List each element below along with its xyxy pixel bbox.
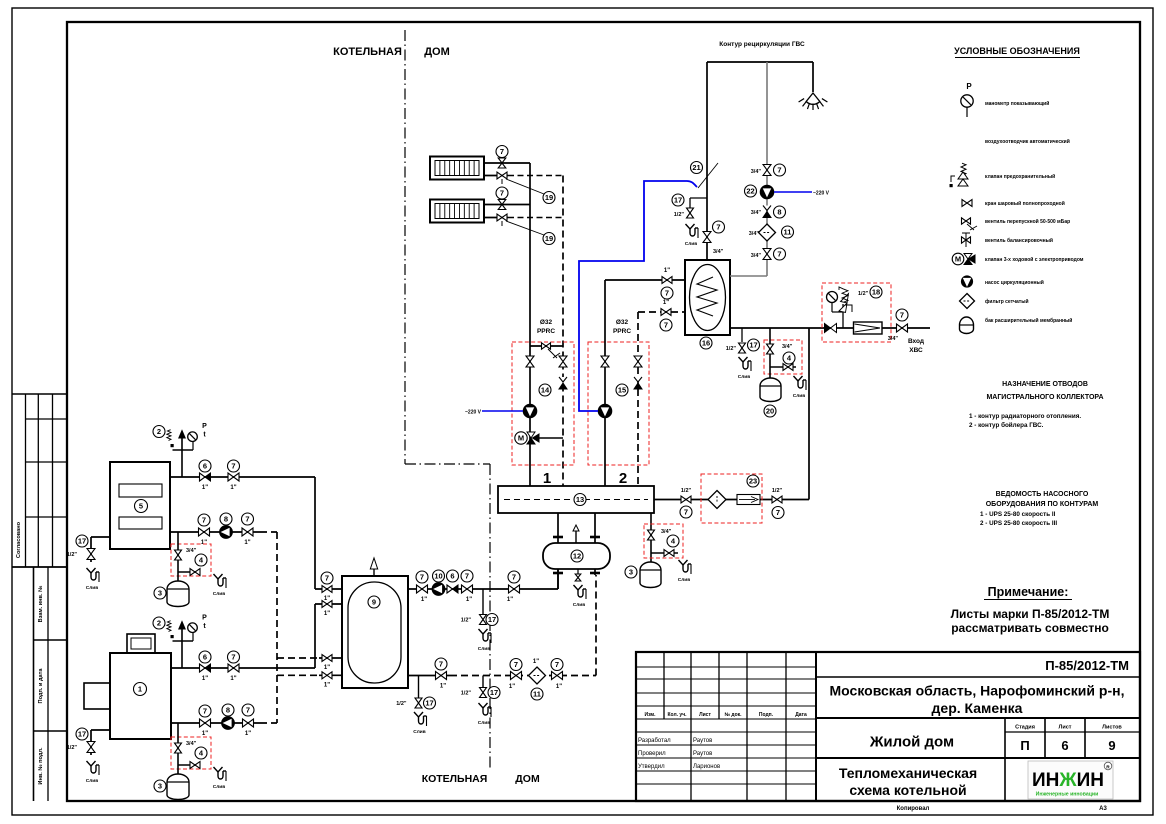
svg-text:КОТЕЛЬНАЯ: КОТЕЛЬНАЯ (422, 773, 488, 785)
note circuit 1 (969, 413, 1081, 420)
legend filter (960, 294, 1029, 309)
svg-text:1": 1" (245, 731, 251, 737)
flow cartridge 23 (737, 495, 760, 505)
legend expansion tank (960, 317, 1073, 334)
svg-text:ОБОРУДОВАНИЯ ПО КОНТУРАМ: ОБОРУДОВАНИЯ ПО КОНТУРАМ (986, 501, 1099, 508)
svg-text:3/4": 3/4" (186, 548, 197, 554)
svg-text:7: 7 (512, 573, 516, 582)
legend balancing valve (962, 233, 1053, 247)
svg-text:1": 1" (201, 540, 207, 546)
svg-text:1/2": 1/2" (674, 212, 685, 218)
circuit 1 supply riser (529, 163, 531, 486)
svg-text:6: 6 (450, 572, 454, 581)
svg-text:1/2": 1/2" (726, 346, 737, 352)
svg-text:17: 17 (490, 688, 498, 697)
label КОТЕЛЬНАЯ (bottom) (422, 773, 488, 785)
svg-text:вентиль перепускной 50-500 мБа: вентиль перепускной 50-500 мБар (985, 218, 1070, 225)
valve 7 on K5 supply (228, 460, 240, 491)
svg-text:Кол. уч.: Кол. уч. (667, 712, 687, 718)
svg-text:7: 7 (439, 660, 443, 669)
pressure gauge in box 18 (827, 292, 844, 313)
INZHIN logo (1028, 761, 1113, 799)
radiator 1 return valve (497, 172, 507, 184)
circuit 1 pump 14 (523, 384, 551, 418)
svg-text:схема котельной: схема котельной (849, 782, 966, 798)
radiator 1 (430, 157, 484, 180)
pipe boiler K5 supply (170, 477, 315, 589)
svg-text:МАГИСТРАЛЬНОГО КОЛЛЕКТОРА: МАГИСТРАЛЬНОГО КОЛЛЕКТОРА (986, 394, 1103, 401)
temperature sensor 21 (691, 162, 719, 189)
svg-text:Слив: Слив (678, 577, 690, 583)
valve 7 tank9 return (435, 658, 447, 690)
check valve 8 recirc (751, 206, 786, 219)
svg-text:1": 1" (324, 596, 330, 602)
svg-text:3/4": 3/4" (751, 210, 762, 216)
stage values (1020, 738, 1115, 753)
tank 9 port 1 (from K5) (315, 572, 342, 602)
svg-text:12: 12 (573, 552, 581, 561)
filter 11 return (529, 659, 546, 700)
svg-text:7: 7 (900, 311, 904, 320)
svg-text:Слив: Слив (86, 585, 98, 591)
circuit 1 red box (512, 342, 574, 465)
format A3 (1099, 806, 1107, 812)
svg-text:1": 1" (440, 684, 446, 690)
svg-text:1": 1" (509, 684, 515, 690)
make-up red box 4 (764, 340, 802, 374)
svg-text:7: 7 (777, 250, 781, 259)
svg-text:3/4": 3/4" (749, 231, 760, 237)
valve 7b tank9 supply (461, 570, 473, 603)
svg-text:1": 1" (533, 659, 539, 665)
radiator 2 return pipe (484, 217, 563, 219)
title block header row (644, 712, 807, 718)
svg-text:Раутов: Раутов (693, 738, 712, 744)
svg-text:7: 7 (325, 574, 329, 583)
svg-text:Слив: Слив (413, 729, 425, 735)
separator stub bottom left (553, 569, 563, 589)
svg-text:ХВС: ХВС (909, 347, 923, 354)
svg-text:7: 7 (777, 166, 781, 175)
svg-text:1: 1 (543, 470, 551, 487)
svg-text:1/2": 1/2" (67, 745, 78, 751)
circuit 2 riser valve (601, 356, 609, 367)
svg-text:7: 7 (500, 147, 504, 156)
svg-text:9: 9 (372, 598, 376, 607)
svg-text:3/4": 3/4" (888, 336, 899, 342)
svg-text:Утвердил: Утвердил (638, 764, 665, 770)
svg-text:Примечание:: Примечание: (988, 585, 1069, 599)
expansion tank 3 at manifold (625, 562, 661, 588)
pipe circuit2 return from tank 16 (dashed) (638, 311, 685, 313)
svg-text:Жилой дом: Жилой дом (869, 734, 954, 751)
drain 17 on supply header (461, 589, 498, 652)
svg-text:22: 22 (746, 187, 754, 196)
radiator 2 (430, 200, 484, 223)
svg-text:6: 6 (203, 653, 207, 662)
tank 16 heating coil (697, 277, 717, 316)
valve 7 tank9 supply (416, 571, 428, 603)
valve 7 tank16 supply (661, 268, 673, 299)
svg-text:Инв. № подл.: Инв. № подл. (38, 747, 44, 785)
svg-text:Ø32: Ø32 (540, 319, 553, 326)
svg-text:1": 1" (244, 540, 250, 546)
circuit 2 red box (588, 342, 649, 465)
stage header (1015, 725, 1122, 731)
filter 23 diamond (708, 491, 726, 509)
pipe separator to tank 9 (return) (408, 575, 596, 676)
pump 8 boiler K1 (222, 704, 235, 729)
svg-text:Листы марки П-85/2012-ТМ: Листы марки П-85/2012-ТМ (951, 607, 1110, 621)
svg-text:клапан предохранительный: клапан предохранительный (985, 173, 1055, 180)
svg-text:КОТЕЛЬНАЯ: КОТЕЛЬНАЯ (333, 46, 402, 58)
svg-text:№ док.: № док. (724, 712, 742, 718)
legend pump (961, 276, 1043, 287)
valve 7 return after filter (551, 659, 563, 691)
svg-text:Контур рециркуляции ГВС: Контур рециркуляции ГВС (719, 41, 805, 48)
pipe boiler K5 return (170, 531, 277, 533)
svg-text:7: 7 (245, 515, 249, 524)
svg-text:11: 11 (784, 228, 792, 237)
svg-text:НАЗНАЧЕНИЕ ОТВОДОВ: НАЗНАЧЕНИЕ ОТВОДОВ (1002, 381, 1088, 388)
circuit 1 bypass with safety valve (530, 343, 563, 358)
DHW tank 16 (685, 260, 730, 349)
svg-text:3/4": 3/4" (751, 169, 762, 175)
valve 7 recirc top (751, 164, 786, 176)
svg-text:3/4": 3/4" (782, 344, 793, 350)
circuit 2 return riser (dashed) (637, 312, 639, 486)
svg-text:рассматривать совместно: рассматривать совместно (951, 621, 1109, 635)
svg-text:3: 3 (158, 782, 162, 791)
valve 7 on K1 supply (228, 651, 240, 682)
svg-text:Слив: Слив (573, 602, 585, 608)
svg-text:2 - контур бойлера ГВС.: 2 - контур бойлера ГВС. (969, 421, 1044, 429)
note primechanie (984, 585, 1072, 600)
svg-text:фильтр сетчатый: фильтр сетчатый (985, 298, 1029, 305)
svg-text:Слив: Слив (213, 591, 225, 597)
svg-text:манометр показывающий: манометр показывающий (985, 100, 1049, 107)
svg-text:Изм.: Изм. (644, 712, 656, 718)
svg-text:7: 7 (776, 508, 780, 517)
svg-text:Тепломеханическая: Тепломеханическая (839, 765, 977, 781)
svg-text:PPRC: PPRC (537, 328, 555, 335)
svg-text:ВЕДОМОСТЬ НАСОСНОГО: ВЕДОМОСТЬ НАСОСНОГО (996, 491, 1089, 498)
radiator 1 sensor line 19 (506, 179, 555, 204)
left margin tables with rotated labels (12, 394, 67, 801)
safety group boiler K5 (item 2, air vent, gauge P) (153, 423, 207, 477)
valve 7b on K1 return (242, 704, 254, 737)
svg-text:3/4": 3/4" (186, 741, 197, 747)
manifold drop to expansion group (650, 513, 652, 562)
check valve 6 tank9 supply (447, 570, 459, 593)
label ДОМ (top) (424, 46, 450, 58)
separator drain (573, 569, 586, 608)
circuit 2 pump 15 (598, 384, 628, 418)
legend ball valve (962, 200, 1065, 208)
svg-text:Вход: Вход (908, 338, 924, 345)
pipe boiler K1 supply (171, 604, 315, 668)
tank 9 port 3 (return) (277, 655, 342, 672)
svg-text:Ларионов: Ларионов (693, 764, 720, 770)
check valve 6 on K1 supply (199, 651, 211, 682)
svg-text:1": 1" (230, 676, 236, 682)
circuit 1 check valve (559, 377, 567, 389)
svg-text:3/4": 3/4" (751, 253, 762, 259)
legend air vent label (985, 138, 1070, 145)
svg-text:17: 17 (488, 615, 496, 624)
object address (830, 683, 1125, 717)
svg-text:~220 V: ~220 V (813, 191, 830, 197)
svg-text:2: 2 (157, 427, 161, 436)
pipe boiler K1 return (171, 722, 277, 724)
svg-text:насос циркуляционный: насос циркуляционный (985, 279, 1044, 286)
svg-text:Слив: Слив (478, 646, 490, 652)
recirculation pump 22 (745, 185, 774, 199)
drain near tank 20 (793, 376, 806, 399)
svg-text:5: 5 (139, 502, 143, 511)
valve 1/2 manifold right (680, 488, 692, 518)
svg-text:3/4": 3/4" (713, 249, 724, 255)
circuit 2 label Ø32 PPRC (613, 319, 631, 335)
svg-text:дер. Каменка: дер. Каменка (932, 700, 1023, 716)
svg-text:17: 17 (749, 341, 757, 350)
power line 220V to pump 22 (774, 191, 830, 197)
kopiroval (897, 806, 930, 812)
DHW riser from tank 16 top (706, 62, 708, 260)
circuit 1 riser valve (526, 356, 534, 367)
svg-text:7: 7 (203, 707, 207, 716)
svg-text:17: 17 (425, 699, 433, 708)
svg-text:17: 17 (674, 196, 682, 205)
DHW top header (707, 61, 813, 63)
note sheets 1 (951, 607, 1110, 621)
boiler K1 body (84, 634, 171, 739)
dashed return riser to buffer tank (276, 532, 278, 723)
expansion tank 20 (760, 378, 781, 417)
filter cartridge on cold water (854, 322, 883, 334)
separator stub top right (590, 513, 600, 543)
svg-text:10: 10 (434, 572, 442, 581)
svg-text:Слив: Слив (793, 393, 805, 399)
svg-text:П: П (1020, 738, 1029, 753)
svg-text:Дата: Дата (795, 712, 807, 718)
svg-text:PPRC: PPRC (613, 328, 631, 335)
svg-text:Подп. и дата: Подп. и дата (38, 668, 44, 704)
svg-text:М: М (518, 434, 524, 443)
pump 10 charge (432, 570, 445, 595)
separator air vent (573, 525, 579, 543)
svg-text:16: 16 (702, 339, 710, 348)
drain valve 17 at boiler K1 (67, 728, 110, 784)
svg-text:7: 7 (465, 572, 469, 581)
svg-text:1": 1" (324, 611, 330, 617)
svg-text:М: М (955, 255, 961, 264)
valve 7 before separator (507, 571, 520, 603)
svg-text:Слив: Слив (86, 778, 98, 784)
valve 1/2 make-up (772, 488, 784, 519)
svg-text:1/2": 1/2" (461, 618, 472, 624)
svg-text:2: 2 (157, 619, 161, 628)
svg-text:бак расширительный мембранный: бак расширительный мембранный (985, 317, 1072, 324)
svg-text:Копировал: Копировал (897, 806, 930, 812)
svg-text:ИНЖИН: ИНЖИН (1032, 770, 1104, 791)
power line 220V to pump 14 (465, 410, 523, 416)
svg-text:1/2": 1/2" (67, 552, 78, 558)
circuit 1 return valve (559, 356, 567, 367)
distribution manifold 13 (498, 486, 654, 513)
valve 7 recirc bottom (751, 248, 786, 260)
svg-text:УСЛОВНЫЕ ОБОЗНАЧЕНИЯ: УСЛОВНЫЕ ОБОЗНАЧЕНИЯ (954, 46, 1080, 56)
svg-text:15: 15 (618, 386, 626, 395)
svg-text:2 - UPS 25-80 скорость III: 2 - UPS 25-80 скорость III (980, 520, 1057, 527)
shower outlet (799, 62, 828, 110)
radiator 1 valve 7 (496, 146, 508, 169)
svg-text:Инженерные инновации: Инженерные инновации (1036, 792, 1099, 798)
svg-text:воздухоотводчик автоматический: воздухоотводчик автоматический (985, 138, 1070, 145)
svg-text:3/4": 3/4" (661, 529, 672, 535)
svg-text:Слив: Слив (213, 784, 225, 790)
svg-text:8: 8 (226, 706, 230, 715)
pressure reducer red box 18 (822, 283, 891, 342)
drawing name (839, 765, 977, 798)
note pump 1 (980, 511, 1056, 518)
svg-text:3: 3 (158, 589, 162, 598)
legend title (954, 46, 1080, 58)
radiator 1 supply pipe (484, 162, 530, 164)
svg-text:19: 19 (545, 193, 553, 202)
svg-text:7: 7 (665, 289, 669, 298)
title block grid right (816, 677, 1140, 801)
valve 7 tank16 return (660, 300, 672, 331)
svg-text:клапан 3-х ходовой с электропр: клапан 3-х ходовой с электроприводом (985, 256, 1084, 263)
svg-text:Стадия: Стадия (1015, 725, 1035, 731)
svg-text:1": 1" (421, 597, 427, 603)
valve 7 cold water inlet (888, 309, 908, 342)
legend 3-way valve (952, 253, 1084, 265)
radiator 1 return pipe (484, 175, 563, 177)
pressure reducer 18 (839, 286, 882, 328)
svg-text:20: 20 (766, 407, 774, 416)
svg-text:Ø32: Ø32 (616, 319, 629, 326)
svg-text:Листов: Листов (1102, 725, 1122, 731)
svg-text:1": 1" (507, 597, 513, 603)
svg-text:19: 19 (545, 234, 553, 243)
valve 7 return before filter (509, 659, 522, 691)
separator stub top left (553, 513, 563, 543)
svg-text:P: P (202, 423, 207, 430)
label ДОМ (bottom) (515, 773, 540, 785)
circuit 2 return valve (634, 356, 642, 367)
circuit 2 supply riser (604, 280, 606, 486)
make-up line down to manifold (808, 328, 810, 500)
boundary line КОТЕЛЬНАЯ/ДОМ (dash-dot) (405, 30, 490, 768)
svg-text:7: 7 (555, 660, 559, 669)
svg-text:P: P (202, 615, 207, 622)
label Контур рециркуляции ГВС (719, 41, 805, 48)
separator stub bottom right (590, 569, 600, 575)
svg-text:7: 7 (246, 706, 250, 715)
valve 7b on K5 return (242, 513, 254, 546)
svg-text:8: 8 (777, 208, 781, 217)
power/control line to pump 15 (blue) (579, 181, 697, 411)
drain 17 on return header (461, 676, 500, 727)
circuit 1 return riser (dashed) (562, 176, 564, 487)
svg-text:вентиль балансировочный: вентиль балансировочный (985, 237, 1053, 244)
svg-text:P: P (966, 82, 972, 91)
svg-text:14: 14 (541, 386, 550, 395)
check valve on cold water inlet (825, 324, 837, 333)
svg-text:7: 7 (420, 573, 424, 582)
air vent on buffer tank (370, 558, 377, 576)
svg-text:7: 7 (231, 653, 235, 662)
title block grid left (636, 652, 1140, 801)
doc number П-85/2012-ТМ (1045, 658, 1129, 673)
svg-text:1/2": 1/2" (461, 691, 472, 697)
svg-text:17: 17 (78, 730, 86, 739)
svg-text:1/2": 1/2" (772, 488, 783, 494)
pump 8 boiler K5 (220, 513, 233, 538)
legend gauge symbol (961, 82, 1050, 117)
svg-text:Согласовано: Согласовано (16, 521, 22, 558)
svg-text:8: 8 (224, 515, 228, 524)
valve group 4 at manifold (648, 529, 680, 557)
svg-text:1": 1" (556, 684, 562, 690)
svg-text:6: 6 (1061, 738, 1068, 753)
note sheets 2 (951, 621, 1109, 635)
svg-text:1": 1" (202, 731, 208, 737)
svg-text:7: 7 (716, 223, 720, 232)
svg-text:1": 1" (202, 676, 208, 682)
drain 17 on cold water (726, 328, 760, 380)
hydraulic separator 12 (543, 543, 610, 569)
svg-text:2: 2 (619, 470, 627, 487)
svg-text:7: 7 (684, 508, 688, 517)
svg-text:П-85/2012-ТМ: П-85/2012-ТМ (1045, 658, 1129, 673)
circuit number 1 (543, 470, 551, 487)
svg-text:1/2": 1/2" (858, 291, 869, 297)
legend safety valve symbol (950, 163, 1056, 187)
make-up valve group 4 (767, 328, 797, 378)
circuit 1 three-way valve M (515, 432, 563, 444)
pipe tank 9 to separator (supply) (408, 569, 558, 589)
tank 9 port 2 (to K1) (315, 601, 342, 618)
svg-text:1": 1" (466, 597, 472, 603)
valve 7 on K5 return (198, 514, 210, 546)
filter 11 recirc (749, 224, 794, 241)
svg-text:Проверил: Проверил (638, 751, 666, 757)
title block signatures (638, 738, 720, 770)
safety group boiler K1 (item 2, air vent, gauge P) (153, 615, 207, 669)
pipe circuit2 supply to tank 16 (605, 279, 685, 281)
svg-text:1": 1" (230, 485, 236, 491)
svg-text:Взам. инв. №: Взам. инв. № (38, 586, 44, 623)
svg-text:1: 1 (138, 685, 142, 694)
note pump 2 (980, 520, 1057, 527)
make-up filter red box 23 (701, 474, 762, 523)
red box 4 at manifold (644, 524, 683, 558)
svg-text:1": 1" (202, 485, 208, 491)
recirculation riser (grey) (730, 62, 767, 276)
svg-text:23: 23 (749, 477, 757, 486)
svg-text:Слив: Слив (685, 241, 697, 247)
label Вход ХВС (908, 338, 924, 354)
boiler K5 label 5 (135, 500, 148, 513)
radiator 2 sensor line 19 (506, 221, 555, 245)
legend overflow valve (962, 218, 1071, 230)
drain 17 on DHW riser (672, 194, 707, 247)
svg-text:Подп.: Подп. (759, 712, 774, 718)
svg-text:Лист: Лист (1059, 725, 1072, 731)
